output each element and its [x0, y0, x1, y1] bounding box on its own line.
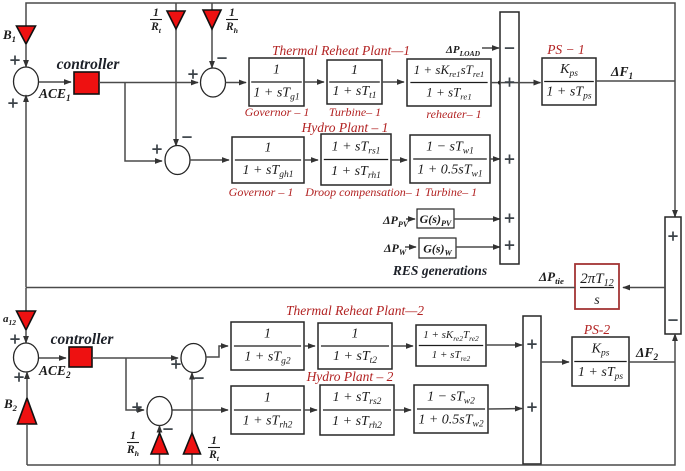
wire hydro turbine 2 to summer A2	[488, 408, 522, 411]
svg-text:1: 1	[229, 7, 235, 19]
svg-text:controller: controller	[51, 331, 115, 348]
wire reheater 1 to summer A1	[491, 82, 500, 84]
wire dP_LOAD in	[482, 47, 499, 49]
svg-text:s: s	[594, 293, 600, 308]
wire G(s)PV to summer A1	[454, 218, 500, 220]
block turbine 1	[327, 60, 382, 104]
wire dF1 drop to tie summer	[674, 81, 676, 217]
gain block a12	[17, 311, 36, 330]
svg-text:PS − 1: PS − 1	[546, 42, 585, 57]
label 1/Rh2 bar	[127, 442, 139, 444]
block hydro turbine 2	[414, 385, 488, 433]
wire hydro governor 2 to droop 2	[304, 409, 317, 411]
sign minus thermal summer 2	[194, 377, 203, 379]
sign minus hydro summer 2	[163, 428, 172, 430]
svg-text:ACE1: ACE1	[38, 86, 71, 103]
sign minus tie dF2	[668, 319, 677, 321]
wire dPtie down to a12	[25, 288, 27, 312]
sign plus hydro summer 2	[132, 402, 141, 411]
summing junction S4 ACE2	[14, 343, 39, 372]
sign plus ACE1 bottom	[8, 98, 17, 107]
svg-text:Turbine– 1: Turbine– 1	[425, 185, 477, 199]
block governor 2	[231, 322, 304, 370]
controller 2 block	[69, 347, 92, 367]
svg-text:1: 1	[153, 7, 159, 19]
svg-text:controller: controller	[57, 56, 121, 73]
svg-text:1: 1	[273, 62, 280, 77]
wire ACE2 to controller 2	[39, 357, 66, 359]
wire hydro governor to droop 1	[304, 159, 318, 161]
svg-text:1: 1	[351, 63, 358, 78]
block turbine 2	[318, 323, 392, 369]
sign plus hydro summer 1	[152, 144, 161, 153]
gain block B2	[18, 398, 37, 424]
sign minus hydro summer 1	[182, 136, 191, 138]
wire G(s)W to summer A1	[456, 246, 500, 248]
wire droop 2 to hydro turbine 2	[394, 409, 411, 411]
wire PS-2 output dF2	[629, 361, 675, 363]
wire bottom feedback to B2	[26, 424, 28, 465]
block hydro governor 2	[231, 386, 304, 434]
svg-text:Hydro Plant – 2: Hydro Plant – 2	[306, 369, 394, 384]
wire droop 1 to hydro turbine 1	[391, 159, 407, 161]
wire B2 to summer ACE2	[26, 372, 28, 398]
block reheater 1	[407, 59, 491, 106]
wire hydro turbine 1 to summer A1	[490, 158, 500, 160]
wire dF2 bottom feedback	[27, 362, 675, 465]
summing junction S6 hydro area2	[147, 397, 172, 426]
wire a12 to summer ACE2	[25, 330, 27, 343]
wire controller 2 to thermal summer 2	[92, 357, 178, 359]
wire reheater 2 to summer A2	[486, 344, 522, 346]
wire 1/Rh gain to thermal summer 1	[211, 29, 213, 68]
svg-text:Turbine– 1: Turbine– 1	[329, 105, 381, 119]
wire turbine 2 to reheater 2	[392, 345, 413, 347]
sign plus thermal summer 2	[171, 359, 180, 368]
wire dF1 top feedback	[26, 3, 675, 81]
wire thermal summer 1 to governor 1	[226, 82, 247, 84]
block droop compensation 1	[321, 134, 391, 185]
wire summer A2 to PS-2	[541, 361, 569, 363]
summing block tie-line	[665, 217, 681, 334]
wire Rh2 feedback to hydro summer 2	[159, 426, 161, 466]
label 1/Rt2 bar	[208, 447, 220, 449]
wire branch to 1/Rh gain	[211, 3, 213, 10]
wire Rt2 feedback to thermal summer 2	[191, 373, 193, 466]
wire controller 1 to thermal summer 1	[99, 82, 198, 84]
svg-text:Thermal Reheat Plant—2: Thermal Reheat Plant—2	[286, 303, 424, 318]
junction dot reheater output	[498, 81, 502, 85]
svg-text:1: 1	[264, 326, 271, 341]
gain block 1/Rt area1	[167, 11, 185, 29]
svg-text:1: 1	[211, 435, 217, 447]
sign plus thermal summer 1	[188, 69, 197, 78]
wire branch to 1/Rt gain	[175, 3, 177, 11]
sign plus thermal 2	[527, 339, 536, 348]
sign plus hydro 2	[527, 402, 536, 411]
summing block A2	[523, 316, 541, 464]
svg-text:Governor – 1: Governor – 1	[245, 105, 310, 119]
svg-text:1: 1	[130, 430, 136, 442]
svg-text:1: 1	[264, 390, 271, 405]
controller 1 block	[74, 72, 99, 94]
block tie-line 2piT12/s	[575, 264, 619, 309]
wire dP_W in	[405, 246, 416, 248]
block G(s)PV	[417, 209, 454, 228]
wire PS-1 output dF1	[596, 80, 675, 82]
block G(s)W	[419, 238, 456, 258]
wire dP_tie to left bus	[26, 287, 575, 289]
label 1/Rh bar	[226, 19, 238, 21]
svg-text:Hydro Plant – 1: Hydro Plant – 1	[301, 120, 389, 135]
label 1/Rt bar	[150, 19, 162, 21]
wire controller 1 branch to hydro summer 1	[125, 83, 162, 162]
sign plus ACE2 top	[10, 334, 19, 343]
wire dPtie to ACE1	[25, 95, 27, 287]
svg-text:Droop compensation– 1: Droop compensation– 1	[304, 185, 421, 199]
block hydro turbine 1	[410, 135, 490, 183]
wire B1 to summer ACE1	[25, 44, 27, 67]
summing junction S5 thermal area2	[181, 344, 206, 373]
wire controller 2 branch to hydro summer 2	[126, 358, 144, 410]
block droop compensation 2	[320, 385, 394, 435]
wire tie summer to 2piT12 block	[623, 287, 665, 289]
wire governor 2 to turbine 2	[304, 345, 315, 347]
sign plus tie dF1	[668, 231, 677, 240]
svg-text:PS-2: PS-2	[583, 322, 610, 337]
svg-text:Thermal Reheat Plant—1: Thermal Reheat Plant—1	[272, 43, 410, 58]
wire 1/Rt gain to hydro summer 1	[175, 29, 177, 146]
sign plus hydro 1	[505, 154, 514, 163]
sign plus wind	[505, 240, 514, 249]
gain block B1	[17, 26, 36, 44]
svg-text:reheater– 1: reheater– 1	[426, 107, 481, 121]
wire dF2 up to tie summer	[674, 334, 676, 362]
svg-text:RES generations: RES generations	[392, 263, 487, 278]
block power system PS-1	[542, 58, 596, 105]
summing junction S2 thermal area1	[201, 68, 226, 97]
wire ACE1 to controller 1	[39, 81, 71, 83]
block reheater 2	[416, 325, 486, 366]
sign plus ACE2 bottom	[14, 372, 23, 381]
sign minus dP_LOAD	[505, 47, 514, 49]
wire hydro summer 2 to hydro governor 2	[173, 409, 229, 411]
wire governor 1 to turbine 1	[304, 81, 324, 83]
summing junction S3 hydro area1	[165, 146, 190, 175]
wire summer A1 to PS-1	[500, 82, 541, 84]
svg-text:1: 1	[265, 141, 272, 156]
block hydro governor 1	[232, 137, 304, 183]
summing block A1	[500, 12, 519, 264]
sign minus thermal summer 1	[217, 57, 226, 59]
block power system PS-2	[572, 337, 629, 386]
wire dP_PV in	[406, 218, 415, 220]
svg-text:Governor – 1: Governor – 1	[229, 185, 294, 199]
summing junction S1 ACE1	[14, 67, 39, 96]
wire turbine 1 to reheater 1	[382, 81, 404, 83]
wire hydro summer 1 to governor h1	[190, 159, 229, 161]
sign plus PV	[505, 213, 514, 222]
gain block 1/Rh area1	[203, 10, 221, 29]
sign plus thermal 1	[505, 77, 514, 86]
block governor 1	[249, 58, 304, 106]
wire thermal summer 2 to governor 2	[206, 346, 228, 357]
gain block 1/Rh area2	[151, 433, 168, 454]
gain block 1/Rt area2	[184, 433, 201, 454]
sign plus ACE1 top	[10, 55, 19, 64]
svg-text:1: 1	[352, 327, 359, 342]
